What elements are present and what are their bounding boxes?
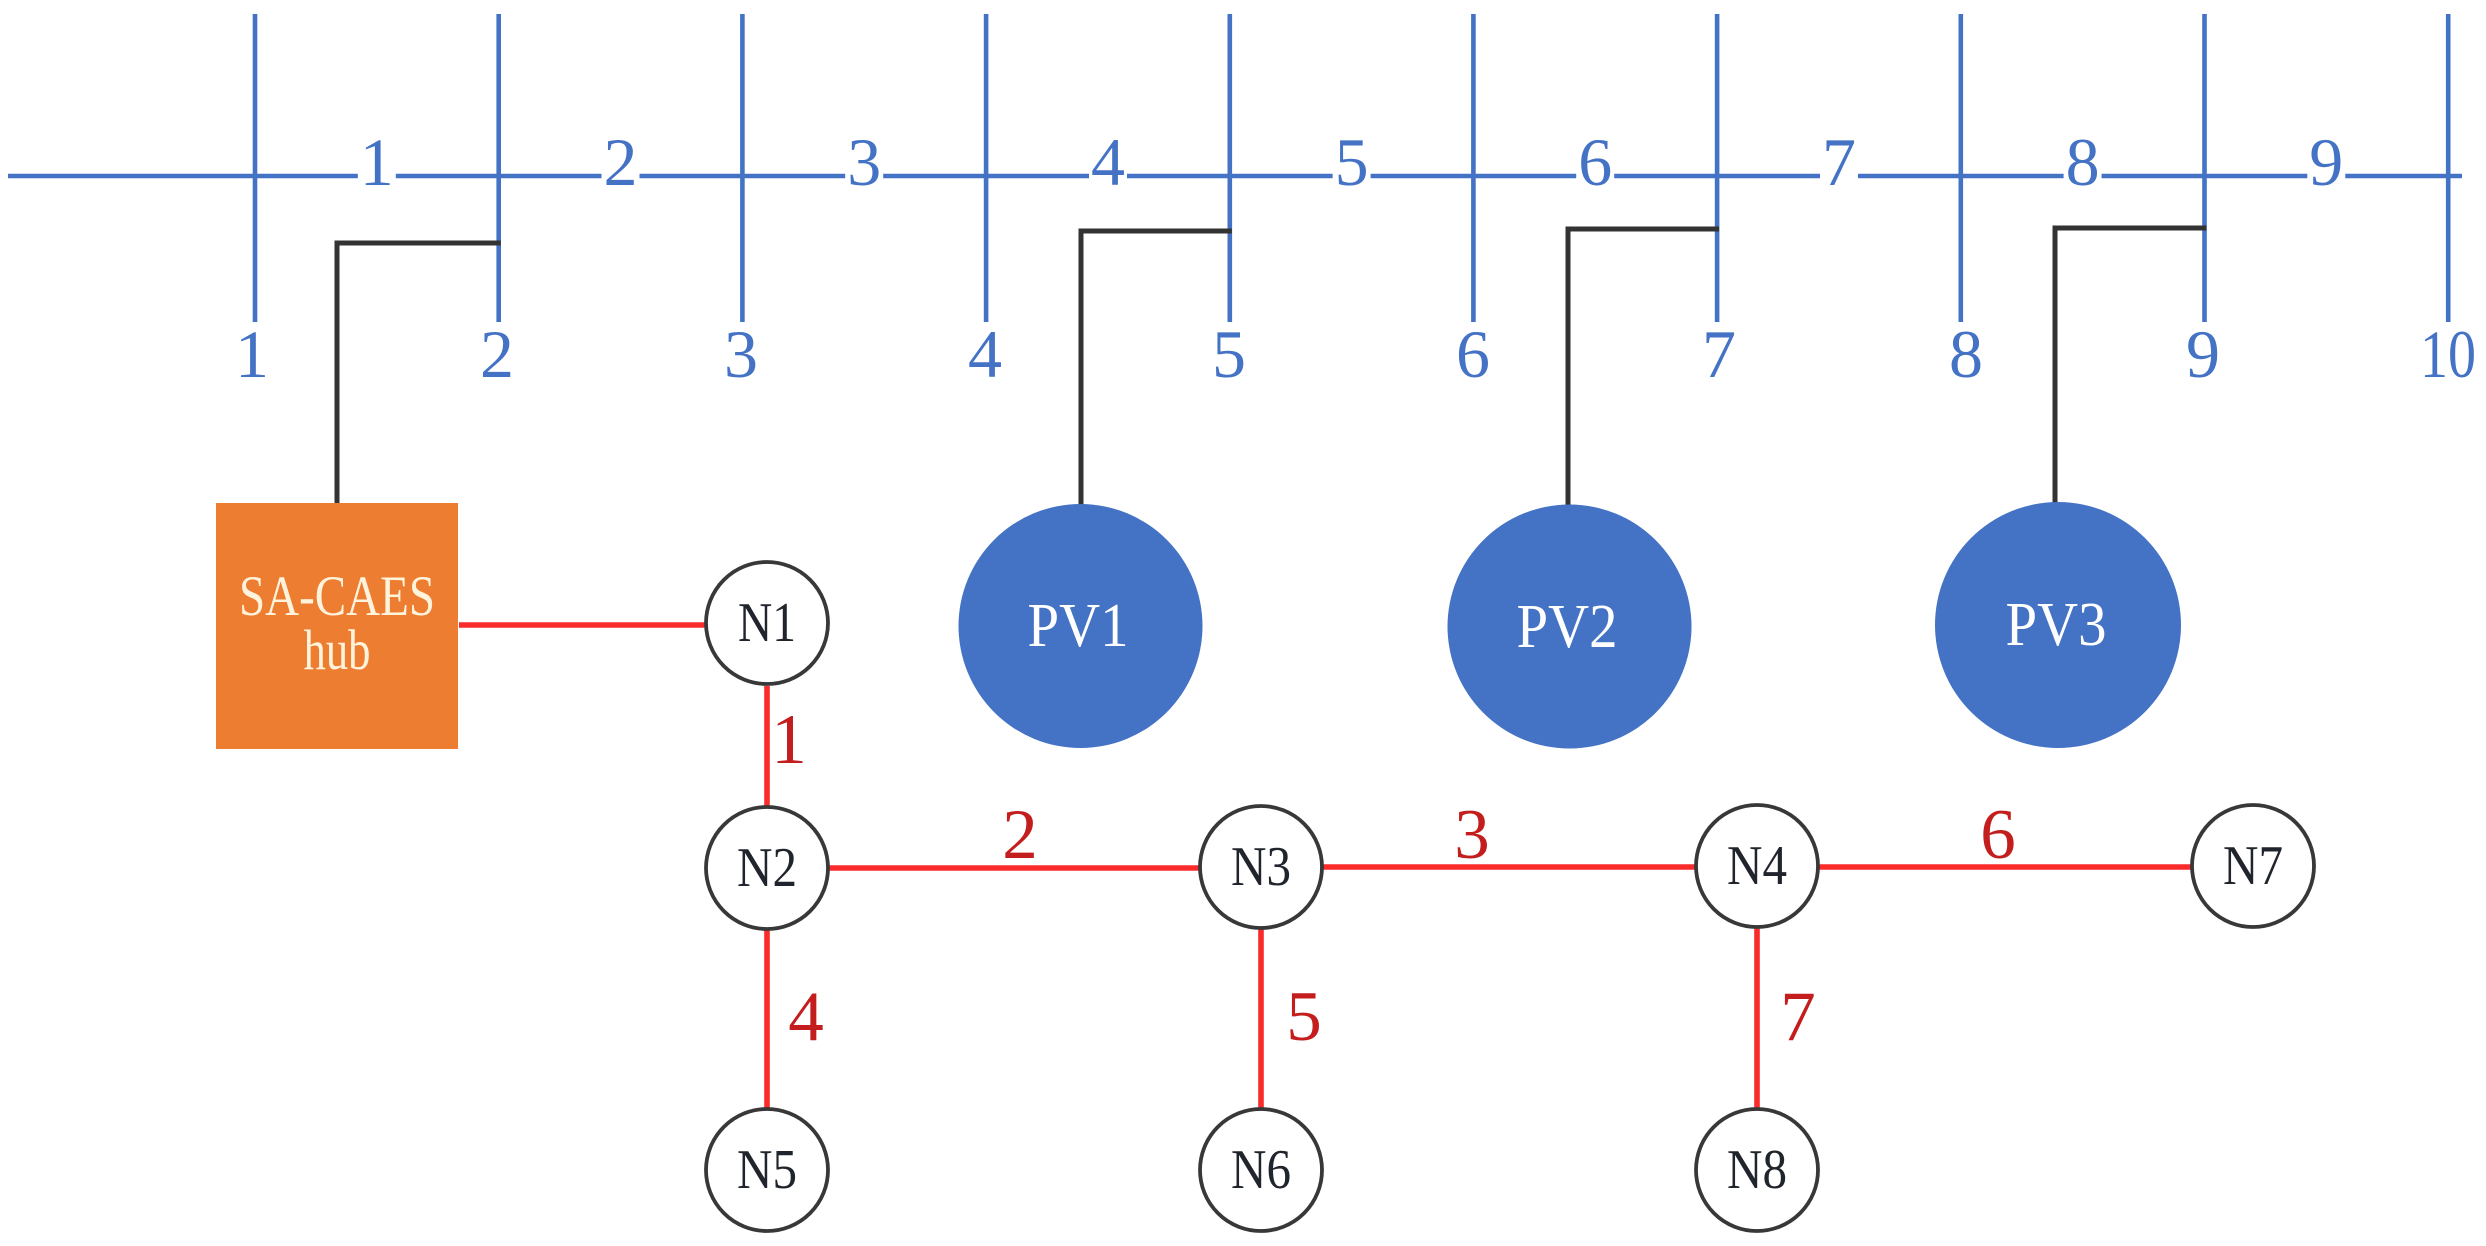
svg-text:N3: N3 [1231, 836, 1291, 898]
svg-text:8: 8 [1949, 316, 1983, 392]
svg-text:6: 6 [1456, 316, 1490, 392]
svg-text:5: 5 [1212, 316, 1246, 392]
svg-text:N4: N4 [1727, 835, 1787, 897]
svg-text:9: 9 [2309, 124, 2343, 200]
svg-text:PV1: PV1 [1028, 592, 1129, 660]
svg-text:N7: N7 [2223, 835, 2283, 897]
svg-text:5: 5 [1335, 124, 1369, 200]
svg-text:PV2: PV2 [1517, 593, 1618, 661]
svg-text:9: 9 [2186, 316, 2220, 392]
svg-text:N8: N8 [1727, 1139, 1787, 1201]
svg-text:2: 2 [1002, 796, 1038, 874]
svg-text:1: 1 [235, 316, 269, 392]
svg-text:4: 4 [788, 978, 824, 1056]
svg-text:N2: N2 [737, 837, 797, 899]
svg-text:3: 3 [724, 316, 758, 392]
svg-text:2: 2 [480, 316, 514, 392]
svg-text:N6: N6 [1231, 1139, 1291, 1201]
svg-text:4: 4 [968, 316, 1002, 392]
svg-text:3: 3 [847, 124, 881, 200]
svg-text:hub: hub [304, 619, 371, 682]
svg-text:3: 3 [1454, 796, 1490, 874]
svg-text:7: 7 [1822, 124, 1856, 200]
svg-text:PV3: PV3 [2006, 591, 2107, 659]
svg-text:8: 8 [2066, 124, 2100, 200]
svg-text:5: 5 [1286, 978, 1322, 1056]
svg-text:N1: N1 [738, 592, 796, 654]
svg-text:1: 1 [360, 124, 394, 200]
svg-text:10: 10 [2420, 316, 2476, 392]
svg-text:7: 7 [1780, 978, 1816, 1056]
svg-text:1: 1 [771, 701, 807, 779]
svg-text:2: 2 [604, 124, 638, 200]
svg-text:6: 6 [1578, 124, 1612, 200]
svg-text:6: 6 [1980, 796, 2016, 874]
svg-text:4: 4 [1091, 124, 1125, 200]
svg-text:N5: N5 [737, 1139, 797, 1201]
svg-text:7: 7 [1702, 316, 1736, 392]
